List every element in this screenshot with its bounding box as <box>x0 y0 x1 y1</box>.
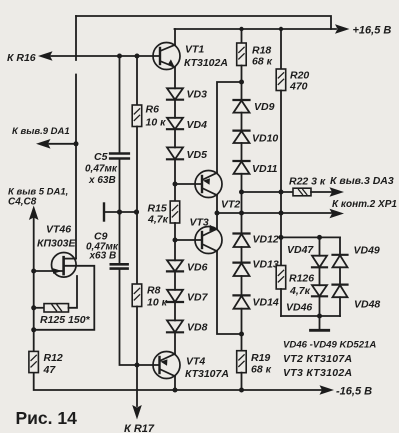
wire VD47-VD46 <box>319 267 321 285</box>
wire R19 to bottom rail <box>241 373 243 390</box>
svg-text:VD9: VD9 <box>254 101 275 113</box>
svg-text:VD46: VD46 <box>286 302 312 314</box>
diode VD7 <box>167 290 183 302</box>
resistor R8 <box>132 284 142 307</box>
wire VT3 emitter up <box>216 213 218 229</box>
node junction 33.7,329.8 <box>31 327 36 332</box>
svg-text:10 к: 10 к <box>146 117 167 129</box>
wire VD4-VD5 <box>174 129 176 147</box>
svg-text:VD48: VD48 <box>354 299 380 311</box>
svg-text:VD47: VD47 <box>287 244 314 256</box>
node junction 119.5,56 <box>117 54 122 59</box>
wire +16.5V rail from VT1 collector <box>175 28 337 30</box>
node junction 241.5,390 <box>239 388 244 393</box>
node -16,5 В arrow <box>320 385 335 395</box>
svg-text:VD8: VD8 <box>187 322 208 334</box>
wire VD11 down through nodes to VD12 <box>241 174 243 234</box>
svg-text:К выв.3 DA3: К выв.3 DA3 <box>330 175 394 187</box>
wire bottom -16.5V rail <box>34 373 322 390</box>
wire VT46 drain <box>64 258 76 260</box>
resistor R126 <box>280 237 282 265</box>
node junction 281,237.4 <box>279 235 284 240</box>
diode VD3 <box>167 88 183 99</box>
svg-text:VD4: VD4 <box>187 119 208 131</box>
wire VD48 to bottom rail <box>339 297 341 316</box>
transistor VT3 <box>195 227 222 254</box>
wire x=119.5 lower to VT4 base <box>120 270 160 366</box>
svg-text:R22 3 к: R22 3 к <box>289 176 326 188</box>
svg-text:КП303Е: КП303Е <box>37 238 77 250</box>
wire bridge bottom rail <box>281 315 340 317</box>
svg-text:68 к: 68 к <box>252 56 273 68</box>
capacitor C9 stub plate <box>103 204 105 221</box>
capacitor C9 <box>111 263 128 266</box>
wire x=137 between R6 and R8 <box>136 127 138 285</box>
wire VD9-VD10 <box>241 113 243 131</box>
node К выв.3 DA3 arrow <box>330 187 345 197</box>
node junction 241.5,334 <box>239 332 244 337</box>
svg-text:К конт.2 ХР1: К конт.2 ХР1 <box>332 199 397 210</box>
node junction 281,213 <box>279 211 284 216</box>
svg-text:R8: R8 <box>147 285 161 297</box>
diode VD11 <box>234 160 250 162</box>
resistor R6 <box>132 105 142 127</box>
node К выв.9 DA1 arrow <box>36 139 51 149</box>
diode VD49 <box>339 237 341 254</box>
wire VD12-VD13 <box>241 247 243 263</box>
resistor R20 <box>280 29 282 69</box>
svg-text:К R17: К R17 <box>124 423 155 433</box>
resistor R12 <box>29 351 39 372</box>
wire К выв.9 DA1 to left vertical <box>49 143 77 145</box>
wire R18 to VD9 <box>241 66 243 101</box>
wire VD14 to R19 <box>241 309 243 351</box>
transistor VT46 <box>52 252 77 277</box>
svg-text:VT2 КТ3107А: VT2 КТ3107А <box>283 353 352 365</box>
wire VT1 emitter to VD3 <box>174 67 176 88</box>
wire R126 to bottom bridge rail <box>280 289 282 316</box>
svg-text:К R16: К R16 <box>7 52 36 64</box>
node junction 241.5,82 <box>239 80 244 85</box>
node К R16 arrow <box>38 51 53 61</box>
svg-text:R6: R6 <box>146 104 160 116</box>
wire R20 down to bridge <box>280 91 282 238</box>
svg-text:С5: С5 <box>94 151 108 163</box>
wire left branch vertical x=33.7 <box>33 217 35 351</box>
svg-text:Рис. 14: Рис. 14 <box>16 408 78 428</box>
diode VD48 <box>333 284 348 286</box>
svg-text:VT3: VT3 <box>190 217 209 229</box>
wire VD10-VD11 <box>241 143 243 161</box>
wire VD49-VD48 <box>339 267 341 284</box>
wire left vertical x=76 (drain feed) <box>75 16 77 259</box>
diode VD8 <box>167 320 183 332</box>
svg-text:VT4: VT4 <box>186 356 205 368</box>
wire VT46 source loop <box>34 266 95 330</box>
diode VD13 <box>234 262 250 264</box>
wire VT2 collector down to node <box>216 195 218 213</box>
node junction 136.5,212 <box>134 209 139 214</box>
wire VT3 collector down and right <box>217 251 242 334</box>
svg-text:47: 47 <box>43 364 57 376</box>
svg-text:0,47мк: 0,47мк <box>85 164 118 175</box>
wire VT2 base <box>175 183 202 185</box>
svg-text:VT46: VT46 <box>46 224 71 236</box>
svg-text:R125 150*: R125 150* <box>40 314 91 326</box>
wire bridge top rail <box>281 236 340 238</box>
wire output to XP1 <box>217 212 331 214</box>
svg-text:КТ3102А: КТ3102А <box>184 57 228 69</box>
transistor VT1 <box>153 43 180 70</box>
svg-text:VD10: VD10 <box>252 133 278 145</box>
svg-text:VD46 -VD49 KD521A: VD46 -VD49 KD521A <box>283 340 376 351</box>
node junction 319.5,316 <box>317 314 322 319</box>
svg-text:КТ3107А: КТ3107А <box>185 368 229 380</box>
svg-text:VT2: VT2 <box>221 199 240 211</box>
node junction 241.5,213 <box>239 211 244 216</box>
wire VD46 to bottom rail <box>319 296 321 316</box>
resistor R125 <box>34 307 44 309</box>
resistor R19 <box>237 351 247 373</box>
svg-text:R19: R19 <box>251 352 270 364</box>
svg-text:К выв.9 DA1: К выв.9 DA1 <box>12 126 70 137</box>
diode VD12 <box>234 232 250 234</box>
svg-text:R12: R12 <box>44 352 63 364</box>
svg-text:VT1: VT1 <box>185 44 204 56</box>
diode VD4 <box>167 118 183 129</box>
node junction 281,192 <box>279 190 284 195</box>
node junction 175,240 <box>173 238 178 243</box>
svg-text:VD6: VD6 <box>187 262 208 274</box>
transistor VT4 <box>153 352 180 379</box>
diode VD9 <box>234 99 250 101</box>
node junction 241.5,192 <box>239 190 244 195</box>
wire VD6-VD7 <box>174 271 176 289</box>
diode VD10 <box>234 130 250 132</box>
diode VD14 <box>234 294 250 296</box>
node junction 33.7,307.8 <box>31 305 36 310</box>
node +16,5 В arrow <box>335 24 350 34</box>
wire x=119.5 vertical upper <box>119 56 121 152</box>
wire VT1 collector <box>174 29 176 45</box>
resistor R15 <box>170 201 180 223</box>
wire VD8 to VT4 emitter <box>174 332 176 354</box>
wire VD7-VD8 <box>174 302 176 320</box>
svg-text:-16,5 В: -16,5 В <box>336 386 372 398</box>
svg-text:470: 470 <box>289 81 308 93</box>
wire VT3 base <box>175 239 202 241</box>
svg-text:10 к: 10 к <box>147 297 168 309</box>
transistor VT2 <box>195 171 222 198</box>
node К выв 5 DA1 up arrow <box>29 206 39 221</box>
resistor R18 <box>241 29 243 43</box>
node junction 175,184 <box>173 182 178 187</box>
node junction 319.5,237.4 <box>317 235 322 240</box>
node junction 175,390 <box>173 388 178 393</box>
svg-text:VD3: VD3 <box>187 89 208 101</box>
svg-text:С4,С8: С4,С8 <box>8 197 37 208</box>
diode VD6 <box>167 260 183 271</box>
capacitor C5 <box>110 152 129 155</box>
node junction 76,143.8 <box>74 141 79 146</box>
wire VD13-VD14 <box>241 276 243 295</box>
svg-text:VD11: VD11 <box>252 163 278 175</box>
node junction 33.7,271 <box>31 269 36 274</box>
wire VT4 collector to bottom rail <box>174 376 176 390</box>
node junction 137,56 <box>135 54 140 59</box>
wire VD3-VD4 <box>174 100 176 118</box>
wire VT1 base wire <box>51 55 160 57</box>
svg-text:х 63В: х 63В <box>88 175 116 186</box>
wire x=137 from R8 down through VT4 base to К R17 arrow <box>136 307 138 407</box>
diode VD46 <box>312 285 327 296</box>
svg-text:4,7к: 4,7к <box>147 214 169 226</box>
node junction 217,213 <box>215 211 220 216</box>
wire x=119.5 between C5 and C9 <box>119 160 121 264</box>
svg-text:VD13: VD13 <box>253 259 279 271</box>
wire VT46 gate with arrow <box>34 270 64 272</box>
node К конт.2 ХР1 arrow <box>330 209 345 219</box>
svg-text:VD7: VD7 <box>187 292 209 304</box>
node junction 119.5,212 <box>117 209 122 214</box>
diode VD47 <box>319 237 321 255</box>
node К R17 arrow down <box>132 405 142 420</box>
svg-text:х63 В: х63 В <box>89 251 117 262</box>
wire C9 stub horizontal <box>104 211 137 213</box>
svg-text:VT3 КТ3102А: VT3 КТ3102А <box>283 367 352 379</box>
svg-text:VD14: VD14 <box>253 297 279 309</box>
svg-text:+16,5 В: +16,5 В <box>353 25 392 37</box>
svg-text:68 к: 68 к <box>251 364 272 376</box>
svg-text:R126: R126 <box>289 273 314 285</box>
svg-text:VD12: VD12 <box>253 234 279 246</box>
resistor R22 <box>242 191 294 193</box>
ground <box>319 316 321 330</box>
svg-text:4,7к: 4,7к <box>289 285 311 297</box>
wire x=137 vertical upper (R6 branch) <box>136 56 138 105</box>
wire top rail from left vertical to +16.5V bend <box>76 16 331 29</box>
wire R15 to VD6 via VT3 base node <box>174 223 176 260</box>
diode VD5 <box>167 147 183 159</box>
wire VT2 emitter up and over to R18/VD9 node <box>217 82 242 173</box>
svg-text:VD49: VD49 <box>354 245 380 257</box>
node junction 137,365 <box>135 363 140 368</box>
svg-text:VD5: VD5 <box>187 149 208 161</box>
wire VD5 to R15 via VT2 base node <box>174 159 176 201</box>
